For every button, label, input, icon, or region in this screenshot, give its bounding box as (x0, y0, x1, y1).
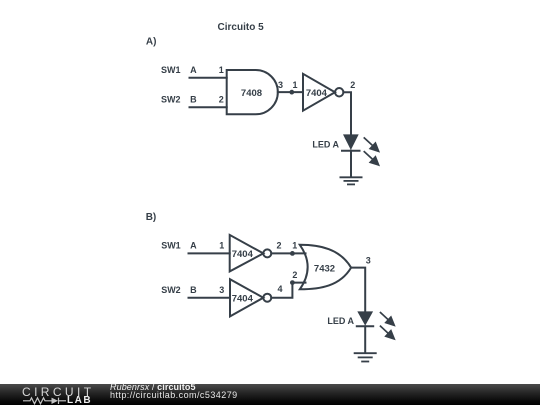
wire U1 output to U2 input (node 1) (278, 91, 303, 93)
AND gate U1 7408 (227, 70, 278, 114)
wire inverter2 output to OR input 2 (271, 283, 305, 298)
wire B input (section A) (190, 106, 227, 108)
footer bar (0, 384, 540, 405)
inverter 7404 (section B, top) (230, 235, 272, 272)
inverter 7404 (section B, bottom) (230, 279, 271, 316)
svg-text:7432: 7432 (314, 264, 335, 275)
wire OR output down to LED A (section B) (351, 268, 365, 312)
svg-text:1: 1 (292, 241, 297, 251)
CircuitLab logo resistor-diode symbol (22, 396, 68, 405)
ground (section A) (340, 177, 363, 184)
svg-text:A: A (190, 65, 197, 75)
svg-text:7404: 7404 (232, 249, 254, 260)
CircuitLab logo LAB (67, 395, 92, 406)
svg-text:2: 2 (292, 270, 297, 280)
wire LED A cathode to ground (section A) (350, 151, 352, 177)
svg-text:LED A: LED A (327, 316, 354, 326)
svg-text:B: B (190, 95, 197, 105)
OR gate 7432 (300, 245, 351, 289)
svg-text:A: A (190, 241, 197, 251)
ground (section B) (354, 353, 377, 361)
wire inverter1 output to OR input 1 (271, 252, 305, 254)
junction dot node (OR input 2) (290, 280, 295, 285)
svg-text:2: 2 (350, 80, 355, 90)
CircuitLab logo wordmark (22, 385, 94, 399)
svg-text:SW2: SW2 (161, 285, 181, 295)
credit text (110, 383, 238, 399)
wire A input (section A) (190, 77, 227, 79)
inverter U2 7404 (section A) (303, 74, 343, 111)
svg-text:Circuito 5: Circuito 5 (218, 22, 265, 33)
svg-text:1: 1 (219, 241, 224, 251)
svg-text:7408: 7408 (241, 88, 262, 99)
svg-text:3: 3 (366, 256, 371, 266)
svg-text:7404: 7404 (306, 88, 328, 99)
LED light arrows (section A) (364, 137, 379, 165)
svg-text:2: 2 (276, 240, 281, 250)
LED A (section A) (341, 134, 361, 150)
wire LED to ground (section B) (364, 326, 366, 353)
wire B input (section B) (189, 297, 231, 299)
LED A (section B) (356, 311, 374, 326)
wire U2 output down to LED A (343, 92, 351, 134)
svg-text:4: 4 (277, 284, 282, 294)
svg-text:3: 3 (219, 285, 224, 295)
svg-text:B): B) (146, 212, 157, 223)
svg-text:SW2: SW2 (161, 95, 181, 105)
svg-text:3: 3 (278, 80, 283, 90)
svg-text:SW1: SW1 (161, 65, 181, 75)
wire A input (section B) (189, 252, 230, 254)
LED light arrows (section B) (380, 312, 394, 339)
svg-text:1: 1 (219, 65, 224, 75)
junction dot node (OR input 1) (290, 251, 295, 256)
svg-text:LED A: LED A (312, 139, 339, 149)
svg-text:2: 2 (219, 95, 224, 105)
svg-text:B: B (190, 285, 197, 295)
svg-text:A): A) (146, 37, 157, 48)
svg-text:1: 1 (292, 80, 297, 90)
svg-text:7404: 7404 (232, 294, 254, 305)
junction dot node 1 (section A) (289, 90, 294, 95)
svg-text:SW1: SW1 (161, 241, 181, 251)
